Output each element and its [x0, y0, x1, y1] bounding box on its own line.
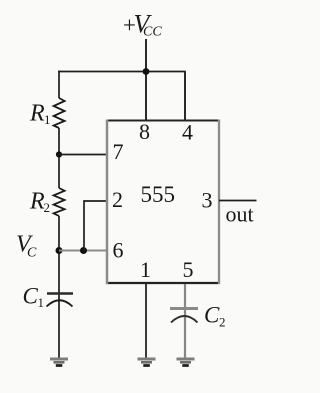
- wire VCC vertical to pin 8: [145, 39, 147, 120]
- wire pin 2 branch: [84, 201, 107, 251]
- svg-text:2: 2: [112, 187, 123, 212]
- label C1: [23, 284, 45, 311]
- svg-text:8: 8: [139, 119, 150, 144]
- ground under C1: [50, 359, 68, 366]
- node junction dot pin2 branch: [80, 247, 87, 254]
- svg-text:C: C: [23, 284, 39, 309]
- svg-text:4: 4: [182, 120, 193, 145]
- ground under pin 1: [138, 359, 156, 366]
- svg-text:3: 3: [202, 188, 213, 213]
- svg-text:1: 1: [38, 295, 45, 310]
- svg-text:R: R: [29, 101, 45, 127]
- label VC: [16, 232, 37, 261]
- svg-text:CC: CC: [143, 25, 162, 40]
- wire pin 4 vertical: [184, 72, 186, 121]
- wire left rail top to R1: [58, 71, 60, 98]
- wire pin 3 output: [219, 200, 257, 202]
- capacitor C2: [170, 309, 198, 323]
- svg-text:7: 7: [113, 139, 124, 164]
- wire pin 1 to ground: [145, 284, 147, 358]
- svg-text:C: C: [204, 303, 220, 328]
- ground under C2: [177, 359, 195, 366]
- label R2: [29, 189, 50, 216]
- svg-text:5: 5: [183, 257, 194, 282]
- capacitor C1: [47, 294, 74, 307]
- svg-text:555: 555: [141, 182, 176, 207]
- resistor R1: [54, 98, 65, 128]
- wire R1 to R2: [58, 128, 60, 188]
- wire R2 down through VC node to C1: [58, 216, 60, 358]
- svg-text:1: 1: [140, 257, 151, 282]
- op IC 555 box: [106, 120, 220, 285]
- wire to pin 7: [59, 154, 107, 156]
- wire top horizontal rail: [58, 71, 186, 73]
- svg-text:out: out: [226, 202, 254, 227]
- label R1: [29, 101, 51, 128]
- node +VCC label: [122, 10, 163, 40]
- wire pin 5 to C2 and ground (gray): [184, 284, 186, 358]
- node junction dot at VCC rail: [143, 68, 150, 75]
- label C2: [204, 303, 226, 330]
- svg-text:2: 2: [44, 200, 51, 215]
- resistor R2: [54, 188, 65, 216]
- svg-text:2: 2: [219, 315, 226, 330]
- node junction dot VC: [56, 247, 63, 254]
- svg-text:C: C: [27, 246, 37, 261]
- svg-text:6: 6: [113, 238, 124, 263]
- svg-text:1: 1: [44, 112, 51, 127]
- node junction dot R1/R2: [56, 151, 62, 157]
- wire to pin 6 (gray): [59, 249, 107, 251]
